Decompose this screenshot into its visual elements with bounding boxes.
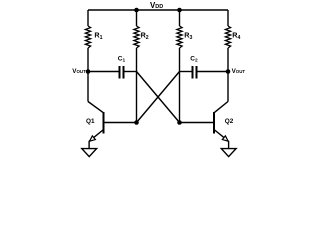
transistor Q1 xyxy=(88,72,104,149)
svg-text:R3: R3 xyxy=(184,31,192,42)
svg-text:VOUT: VOUT xyxy=(72,68,86,75)
resistor R1 xyxy=(85,10,90,72)
transistor Q2 xyxy=(214,72,229,149)
capacitor C1 xyxy=(120,66,137,79)
wire Q2 base xyxy=(180,122,214,124)
svg-text:Q1: Q1 xyxy=(86,118,95,125)
wire VOUT1 to C1 xyxy=(88,71,119,73)
ground (Q2 emitter) xyxy=(221,149,236,157)
svg-text:VOUT: VOUT xyxy=(232,68,246,75)
node VOUT1 xyxy=(86,69,91,74)
svg-text:C1: C1 xyxy=(118,55,126,63)
svg-text:R1: R1 xyxy=(94,31,102,42)
node VDD junction R2 xyxy=(134,8,139,13)
ground (Q1 emitter) xyxy=(82,149,97,157)
node VOUT2 xyxy=(226,69,231,74)
node Q1 base junction xyxy=(134,120,139,125)
wire Q1 base xyxy=(104,122,137,124)
resistor R4 xyxy=(225,10,230,72)
node VDD junction R3 xyxy=(177,8,182,13)
svg-text:VDD: VDD xyxy=(150,1,163,10)
wire C2 node to C2 xyxy=(180,71,192,73)
wire cross-couple C2 to Q1 base node xyxy=(137,72,180,123)
wire VDD top rail xyxy=(88,9,228,11)
resistor R2 xyxy=(134,10,139,123)
capacitor C2 xyxy=(193,66,229,79)
resistor R3 xyxy=(177,10,182,123)
svg-text:C2: C2 xyxy=(190,55,198,63)
svg-text:R2: R2 xyxy=(141,31,149,42)
node Q2 base junction xyxy=(177,120,182,125)
svg-text:Q2: Q2 xyxy=(225,118,234,125)
svg-text:R4: R4 xyxy=(232,31,240,42)
wire cross-couple C1 to Q2 base node xyxy=(137,72,180,123)
